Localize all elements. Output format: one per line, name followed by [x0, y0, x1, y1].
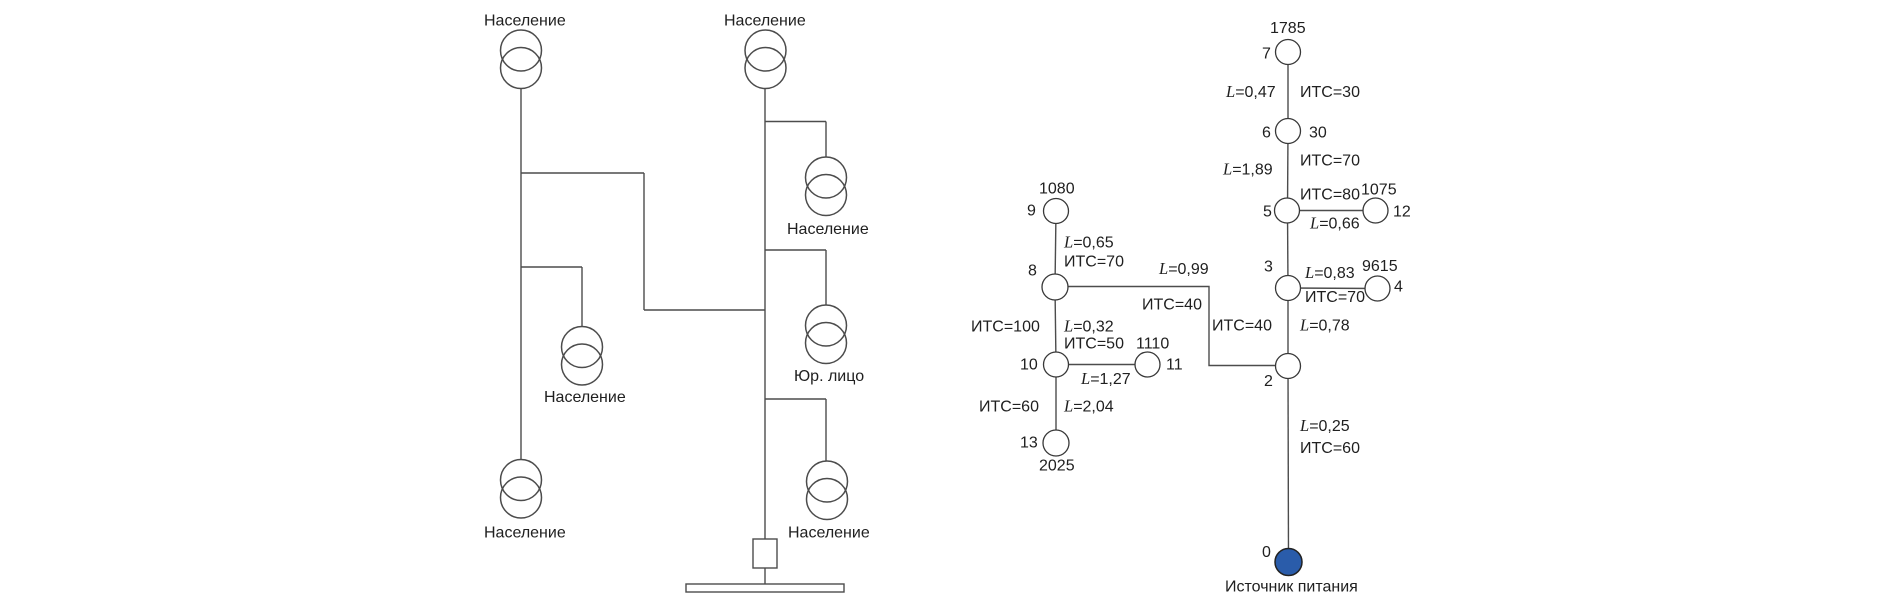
svg-text:8: 8 — [1028, 263, 1037, 280]
edge 8-2 step — [1055, 287, 1288, 366]
svg-text:30: 30 — [1309, 125, 1327, 142]
busbar — [686, 584, 844, 592]
transformer T6 bottom-left — [501, 460, 542, 519]
transformer T5 middle — [562, 327, 603, 386]
transformer T3 right branch 1 — [806, 157, 847, 216]
svg-text:10: 10 — [1020, 357, 1038, 374]
transformer T1 top-left — [501, 30, 542, 89]
edge 9-8 — [1055, 211, 1056, 287]
node 6 — [1276, 119, 1301, 144]
edge 8-10 — [1055, 287, 1056, 365]
svg-text:ИТС=50: ИТС=50 — [1064, 336, 1124, 353]
wire V1 left feeder — [520, 89, 522, 460]
edge 10-13 — [1055, 365, 1057, 444]
transformer T2 top-right — [745, 30, 786, 89]
svg-text:9615: 9615 — [1362, 258, 1398, 275]
svg-text:L=0,99: L=0,99 — [1158, 259, 1209, 278]
svg-text:L=0,66: L=0,66 — [1309, 214, 1360, 233]
svg-text:Население: Население — [788, 525, 870, 542]
svg-text:L=0,25: L=0,25 — [1299, 416, 1350, 435]
svg-text:ИТС=60: ИТС=60 — [1300, 440, 1360, 457]
svg-text:L=0,65: L=0,65 — [1063, 233, 1114, 252]
svg-text:ИТС=100: ИТС=100 — [971, 319, 1040, 336]
node 0 source (filled) — [1275, 549, 1302, 576]
svg-text:7: 7 — [1262, 46, 1271, 63]
wire V7 — [825, 399, 827, 461]
svg-text:0: 0 — [1262, 544, 1271, 561]
svg-text:ИТС=70: ИТС=70 — [1300, 153, 1360, 170]
svg-text:1080: 1080 — [1039, 181, 1075, 198]
svg-text:Население: Население — [787, 221, 869, 238]
edge 5-12 — [1288, 210, 1376, 212]
svg-text:1785: 1785 — [1270, 20, 1306, 37]
svg-text:Население: Население — [484, 13, 566, 30]
edge 2-0 — [1287, 366, 1290, 562]
node 8 — [1042, 274, 1068, 300]
svg-text:Источник питания: Источник питания — [1225, 579, 1358, 596]
node 11 — [1135, 352, 1160, 377]
svg-text:2: 2 — [1264, 373, 1273, 390]
node 2 — [1276, 354, 1301, 379]
edge 5-3 — [1287, 211, 1290, 289]
svg-text:ИТС=40: ИТС=40 — [1212, 318, 1272, 335]
node 12 — [1363, 198, 1388, 223]
svg-text:6: 6 — [1262, 125, 1271, 142]
node 13 — [1043, 430, 1069, 456]
wire H4 — [765, 121, 826, 123]
svg-text:13: 13 — [1020, 435, 1038, 452]
svg-text:L=0,83: L=0,83 — [1304, 263, 1355, 282]
svg-text:1075: 1075 — [1361, 182, 1397, 199]
svg-text:3: 3 — [1264, 259, 1273, 276]
svg-text:2025: 2025 — [1039, 458, 1075, 475]
edge 7-6 — [1287, 52, 1289, 131]
transformer T4 Юр. лицо — [806, 305, 847, 364]
wire V6 — [825, 250, 827, 305]
wire H3 — [521, 266, 582, 268]
svg-text:L=1,27: L=1,27 — [1080, 369, 1131, 388]
edge 3-2 — [1287, 288, 1289, 366]
svg-text:1110: 1110 — [1136, 336, 1169, 353]
wire V2 — [643, 173, 645, 310]
node 7 — [1276, 40, 1301, 65]
svg-text:ИТС=70: ИТС=70 — [1305, 289, 1365, 306]
edge 3-4 — [1288, 287, 1378, 290]
node 5 — [1275, 198, 1300, 223]
wire V8 breaker to busbar — [764, 568, 766, 584]
svg-text:L=0,78: L=0,78 — [1299, 316, 1350, 335]
edge 6-5 — [1287, 131, 1290, 211]
svg-text:L=2,04: L=2,04 — [1063, 397, 1114, 416]
wire V4 right feeder — [764, 89, 766, 540]
wire V5 — [825, 122, 827, 158]
node 9 — [1044, 199, 1069, 224]
svg-text:ИТС=80: ИТС=80 — [1300, 187, 1360, 204]
svg-text:L=0,32: L=0,32 — [1063, 317, 1114, 336]
node 3 — [1276, 276, 1301, 301]
svg-text:ИТС=40: ИТС=40 — [1142, 297, 1202, 314]
wire V3 — [581, 267, 583, 327]
transformer T7 bottom-right — [807, 461, 848, 520]
svg-text:L=1,89: L=1,89 — [1222, 160, 1273, 179]
svg-text:ИТС=70: ИТС=70 — [1064, 254, 1124, 271]
wire H6 — [765, 398, 826, 400]
svg-text:Население: Население — [484, 525, 566, 542]
svg-text:Юр. лицо: Юр. лицо — [794, 368, 864, 385]
svg-text:ИТС=30: ИТС=30 — [1300, 84, 1360, 101]
wire H5 — [765, 249, 826, 251]
svg-text:4: 4 — [1394, 279, 1403, 296]
svg-text:5: 5 — [1263, 204, 1272, 221]
wire H2 — [644, 309, 765, 311]
svg-text:9: 9 — [1027, 203, 1036, 220]
svg-text:11: 11 — [1166, 357, 1183, 374]
node 10 — [1044, 352, 1069, 377]
svg-text:Население: Население — [544, 389, 626, 406]
edge 10-11 — [1056, 364, 1148, 366]
breaker square — [753, 539, 777, 568]
svg-text:Население: Население — [724, 13, 806, 30]
node 4 — [1365, 276, 1390, 301]
svg-text:12: 12 — [1393, 204, 1411, 221]
svg-text:ИТС=60: ИТС=60 — [979, 399, 1039, 416]
svg-text:L=0,47: L=0,47 — [1225, 82, 1276, 101]
wire H1 — [521, 172, 644, 174]
